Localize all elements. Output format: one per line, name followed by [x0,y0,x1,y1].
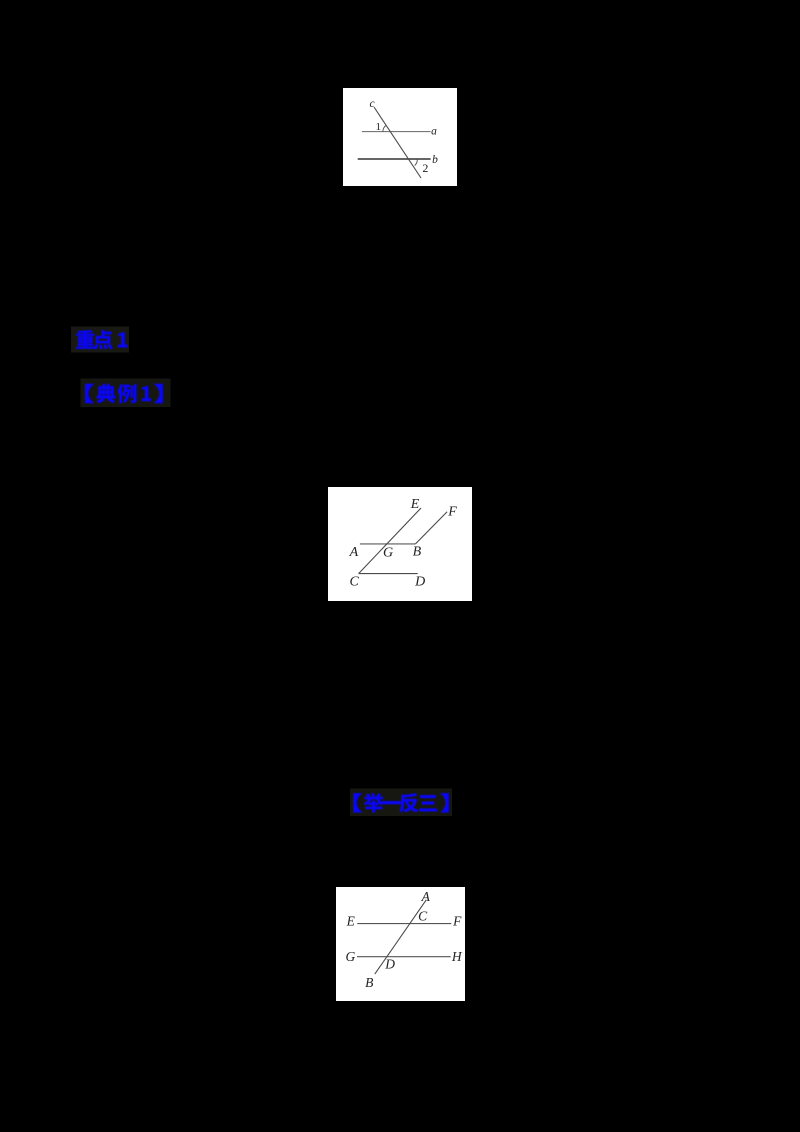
svg-text:D: D [414,575,425,590]
figure box 2: AB, CD with transversal CE and BF [328,487,472,601]
transversal AB [375,900,427,974]
line b [358,158,431,160]
transversal c [374,107,421,178]
svg-text:G: G [383,546,393,561]
angle 1 arc [383,125,386,131]
svg-text:F: F [447,505,457,520]
figure box 1: lines a,b cut by transversal c [343,88,457,186]
svg-text:B: B [413,544,422,559]
svg-text:E: E [346,914,356,929]
heading text 【典例1】 [85,384,163,404]
line EF [357,923,451,925]
segment AB [360,543,416,545]
angle 2 arc [415,159,418,166]
svg-text:C: C [418,909,428,924]
svg-text:E: E [410,497,420,512]
line GH [357,956,451,958]
svg-text:D: D [384,956,395,971]
svg-text:G: G [346,949,356,964]
line a [362,131,431,133]
line CE [359,508,421,574]
heading text 重点1 [76,330,128,349]
heading halo 2 [81,379,171,408]
figure box 3: EF, GH with transversal AB [336,887,465,1001]
segment BF [416,512,448,544]
svg-text:C: C [350,575,360,590]
svg-text:A: A [349,545,359,560]
heading halo 1 [71,327,129,353]
heading halo 3 [350,789,452,817]
svg-text:B: B [365,975,373,990]
svg-text:H: H [451,949,463,964]
heading text 【举一反三】 [353,793,449,813]
svg-text:A: A [421,889,431,904]
segment CD [359,573,418,575]
svg-text:F: F [452,914,462,929]
